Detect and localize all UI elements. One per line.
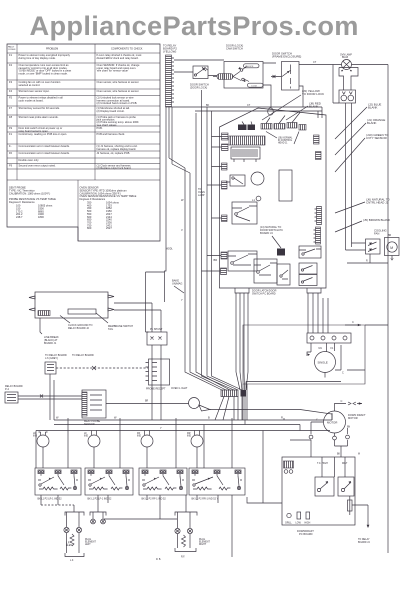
splice X on probe line <box>92 366 96 370</box>
dual element right plug <box>90 512 106 524</box>
svg-text:TO RELAY BOARD: TO RELAY BOARD <box>72 354 94 357</box>
indicator lamp RR <box>191 425 204 469</box>
svg-text:(2) Display board circuit.: (2) Display board circuit. <box>97 109 125 113</box>
wire frame switch to oven lamp <box>299 65 342 108</box>
downdraft pc board <box>282 457 355 525</box>
label: DOOR (LOCK) CAM SWITCH <box>226 44 243 51</box>
wire model jog <box>146 251 167 332</box>
svg-text:TO DOOR LOCK: TO DOOR LOCK <box>302 92 324 96</box>
svg-text:CT: CT <box>247 104 251 107</box>
svg-text:during time of day display mod: during time of day display mode. <box>19 56 57 60</box>
svg-text:UN/MAG: UN/MAG <box>172 282 182 286</box>
label MEMBRANE SWITCH TAIL <box>108 325 133 331</box>
leader: line break <box>40 318 42 334</box>
svg-text:FAN: FAN <box>374 232 379 236</box>
svg-text:CT: CT <box>313 61 317 64</box>
svg-text:F9: F9 <box>9 164 13 168</box>
cooling fan relay box <box>366 239 381 254</box>
svg-text:BK: BK <box>206 104 210 107</box>
svg-text:CNTRL HEAD J2: CNTRL HEAD J2 <box>366 201 389 205</box>
svg-text:BOARD J4: BOARD J4 <box>260 231 273 235</box>
connector J4 <box>277 249 285 256</box>
svg-text:F9: F9 <box>9 126 13 130</box>
grill element plug <box>175 512 197 552</box>
labels GRILL LOW HIGH <box>285 523 311 525</box>
downdraft motor M2 <box>324 399 363 433</box>
svg-text:Y: Y <box>181 298 183 302</box>
label (J10) GREEN TO CAVITY SENSOR with leader <box>366 133 389 140</box>
vacuum fluorescent display <box>231 147 260 162</box>
board feet <box>235 288 321 293</box>
svg-text:Shorted oven sensor input.: Shorted oven sensor input. <box>19 89 50 93</box>
svg-text:BK L1 P2 RF-1 IND 52: BK L1 P2 RF-1 IND 52 <box>142 498 167 501</box>
downdraft relay RLA <box>315 477 334 496</box>
indicator lamp RF <box>141 431 153 469</box>
wire stubs into board left connectors <box>202 137 222 272</box>
oven lamp sockets <box>339 90 356 103</box>
wire bus corners down <box>247 413 332 503</box>
arrow C to supply <box>345 324 388 326</box>
annotation (J9) NORMAL IN CONTROL HEAD J1 <box>278 137 293 145</box>
svg-text:BOARD J4: BOARD J4 <box>358 541 370 544</box>
label (J6) NATURAL TO CNTRL HEAD with leader <box>366 198 390 205</box>
wire lamp side drop <box>333 65 339 104</box>
svg-text:GRILL: GRILL <box>285 523 292 525</box>
svg-text:F5: F5 <box>9 96 13 100</box>
connector J1 board left <box>222 144 229 151</box>
wire oven light to bus <box>149 404 332 421</box>
label CLOCK GROUND TO RELAY BOARD J2 <box>68 324 93 330</box>
svg-text:Oven sensor, wire harness to s: Oven sensor, wire harness to sensor. <box>97 89 140 93</box>
label LINE BREAK (BLACK) AT BOARD J1 <box>44 336 59 345</box>
svg-text:Y: Y <box>160 426 162 430</box>
svg-text:PROBLEM: PROBLEM <box>46 48 58 51</box>
connector J5 board left <box>222 215 228 222</box>
meat probe sensor <box>82 390 106 418</box>
label (J1) ORANGE BLANK with leader <box>367 118 385 125</box>
label TO RELAY BOARD J-6 (GREY) <box>45 354 67 360</box>
connector J9 <box>287 123 297 129</box>
label COOLING FAN <box>374 229 387 236</box>
caption TO RELAY BOARD J4 <box>358 538 370 544</box>
svg-text:R.F.: R.F. <box>181 557 185 559</box>
svg-text:IND: IND <box>137 435 141 438</box>
svg-text:(2) Unlocked hand contact on P: (2) Unlocked hand contact on PCB. <box>97 101 138 105</box>
cam block <box>217 74 233 80</box>
wires board bottom to terminal block <box>308 293 328 333</box>
svg-text:Shorted key sensed for 32 seco: Shorted key sensed for 32 seconds. <box>19 106 61 110</box>
label: DOOR SWITCH (FRAME ENCLOSURE) <box>272 52 301 59</box>
connector P3 dark blocks <box>238 125 247 131</box>
label BAKE UN/MA with leader <box>172 279 182 286</box>
svg-text:ELEM: ELEM <box>66 545 72 547</box>
svg-text:selected at control.: selected at control. <box>19 83 41 87</box>
svg-text:W: W <box>56 416 59 420</box>
label: TO RELAY BOARD (YELLOW) <box>163 44 177 54</box>
wire B1 bottom drop <box>41 495 58 505</box>
door switch (frame enclosure) <box>271 62 299 91</box>
node junction dots <box>206 104 251 107</box>
label (J2) BLUE BLANK with leader <box>368 103 381 110</box>
svg-text:IND: IND <box>187 435 191 438</box>
label (J3) YELLOW TO DOOR LOCK with leader <box>302 89 324 96</box>
svg-text:Degrees F Resistance: Degrees F Resistance <box>80 197 106 201</box>
wires below connector bar <box>215 397 245 425</box>
door switch (door lock) <box>193 66 217 79</box>
svg-text:F4: F4 <box>9 89 13 93</box>
label TO OVEN LAMP <box>198 188 205 197</box>
connector J3 <box>261 124 272 130</box>
element labels <box>66 538 210 562</box>
connector J5R vertical bar <box>314 227 321 244</box>
svg-text:MOTOR: MOTOR <box>348 416 358 420</box>
svg-text:AppliancePartsPros.com: AppliancePartsPros.com <box>30 10 359 41</box>
wire fan to right rail <box>347 254 388 263</box>
svg-text:BLANK: BLANK <box>309 105 319 109</box>
svg-text:C: C <box>341 399 343 403</box>
svg-text:F1: F1 <box>9 132 13 136</box>
svg-text:Communication error noted betw: Communication error noted between boards… <box>19 144 71 148</box>
connector J-6 <box>45 362 56 374</box>
relay K1 <box>226 175 245 186</box>
svg-text:F7: F7 <box>9 106 13 110</box>
svg-text:V: V <box>181 228 183 232</box>
pin leader marks above connectors <box>242 113 300 125</box>
svg-text:R: R <box>366 261 368 263</box>
svg-text:B: B <box>208 416 210 420</box>
svg-text:BR: BR <box>145 401 149 403</box>
labels T.C. HIGH / MGT <box>317 462 348 465</box>
svg-text:M1: M1 <box>319 347 323 350</box>
label: OVEN LAMP <box>340 54 352 60</box>
wire J-6 drop to bus <box>50 374 54 420</box>
wire cam switch to frame switch <box>263 63 276 107</box>
svg-text:Control loop, reading on PCB l: Control loop, reading on PCB low or open… <box>19 132 68 136</box>
wires into shunt <box>114 303 161 332</box>
right supply rail <box>387 65 389 554</box>
relay K7 <box>299 263 317 274</box>
wire P2 to door lock switch <box>174 60 224 72</box>
svg-text:Second oven error output noted: Second oven error output noted. <box>19 164 56 168</box>
label RELAY BOARD P-4 <box>5 385 23 391</box>
connector J6R vertical bar <box>315 207 322 225</box>
downdraft board output pins <box>287 512 310 519</box>
wire meat probe right <box>106 403 149 405</box>
oven lamp bulb assembly <box>339 60 358 91</box>
capacitor C2 <box>348 496 353 515</box>
svg-text:'see chart' for 'sensor value': 'see chart' for 'sensor value' <box>97 69 129 73</box>
svg-text:M: M <box>358 454 360 456</box>
wire bundle from relay connector down <box>166 107 172 251</box>
wire bus into downdraft area <box>290 439 311 441</box>
P1 shunt plug <box>147 332 167 345</box>
convection fan motor M1 <box>307 343 365 378</box>
svg-text:mode, or over 'BMP' locked in: mode, or over 'BMP' locked in clean mode… <box>19 71 68 75</box>
svg-text:2527: 2527 <box>106 226 112 230</box>
wire cap to relay board <box>352 505 368 526</box>
svg-text:BULB: BULB <box>342 57 348 59</box>
infinite switch RR-1 <box>189 468 245 495</box>
svg-text:F1: F1 <box>9 53 13 57</box>
svg-text:R. B.: R. B. <box>156 559 161 561</box>
svg-text:800: 800 <box>87 226 92 230</box>
wire lamp neutral pair down <box>346 103 352 250</box>
svg-text:UNLOCK: UNLOCK <box>245 66 254 68</box>
svg-text:BLANK: BLANK <box>368 106 378 110</box>
svg-text:Double oven only: Double oven only <box>19 158 40 162</box>
svg-text:discard ERC2 clock and relay b: discard ERC2 clock and relay board. <box>97 56 139 60</box>
svg-text:CVTY SENSOR: CVTY SENSOR <box>366 136 387 140</box>
wire drops bus to switch boxes <box>68 420 232 468</box>
svg-text:SWITCH PC BOARD: SWITCH PC BOARD <box>252 293 276 296</box>
svg-text:BR: BR <box>388 235 392 237</box>
wires into downdraft relays <box>322 457 345 477</box>
downdraft relay RLB <box>338 477 354 496</box>
wire B2 drop to element <box>98 495 108 512</box>
svg-text:(DOOR LOCK): (DOOR LOCK) <box>190 86 207 90</box>
connector P-4 <box>5 392 24 403</box>
display header pins <box>229 136 265 145</box>
svg-text:PCB.: PCB. <box>97 126 103 130</box>
wire lamp pair to fan <box>346 243 366 250</box>
svg-text:(2) Replace output lock board.: (2) Replace output lock board. <box>97 166 132 170</box>
connector P2 ribbon to relay board <box>166 55 175 107</box>
board bottom caption <box>252 290 277 296</box>
svg-text:F1: F1 <box>331 347 334 350</box>
bus junction ticks <box>68 418 284 420</box>
board mounting hole <box>268 108 274 115</box>
oven probe receptacle <box>146 359 170 385</box>
main vertical harness <box>185 113 230 390</box>
relay K6 <box>299 246 321 258</box>
svg-text:CAM SWITCH: CAM SWITCH <box>226 47 243 51</box>
svg-text:248.7: 248.7 <box>16 215 23 219</box>
svg-text:DUAL: DUAL <box>199 538 206 541</box>
wire fan-out to main harness <box>169 158 190 173</box>
svg-text:BOARD J1: BOARD J1 <box>44 342 57 345</box>
svg-text:BLANK: BLANK <box>367 121 377 125</box>
wire bar to cavity <box>246 382 341 391</box>
svg-text:F-: F- <box>9 144 12 148</box>
connector J1R right side <box>316 152 322 160</box>
svg-text:C: C <box>342 372 344 375</box>
membrane clock board P5 <box>29 292 114 318</box>
harness wire labels <box>181 198 217 302</box>
svg-text:(YELLOW): (YELLOW) <box>163 50 176 54</box>
svg-text:MOTOR: MOTOR <box>327 421 337 425</box>
small pad circle <box>256 196 261 201</box>
svg-text:PROBE RECEPT: PROBE RECEPT <box>146 388 166 391</box>
connector P9 <box>299 125 306 131</box>
label (J8) RED BLANK with leader <box>309 102 321 109</box>
svg-text:J2 harness, ok, replace PCB.: J2 harness, ok, replace PCB. <box>97 151 131 155</box>
indicator lamp LF <box>88 431 100 469</box>
svg-text:IND: IND <box>84 435 88 438</box>
label MEAT PROBE SENSOR <box>84 420 100 426</box>
dual element left plug <box>64 512 84 557</box>
svg-text:LEFT: LEFT <box>85 544 91 546</box>
svg-text:BR: BR <box>214 258 218 262</box>
label DOWN DRAFT MOTOR <box>316 413 366 456</box>
buzzer circle <box>251 172 264 185</box>
connector J7 board left <box>221 252 227 259</box>
svg-text:Shorted meat probe alarm sound: Shorted meat probe alarm sounds. <box>19 115 59 119</box>
svg-text:1800: 1800 <box>38 215 44 219</box>
svg-text:LOCK: LOCK <box>252 85 258 87</box>
svg-text:COMPONENTS TO CHECK: COMPONENTS TO CHECK <box>111 48 143 51</box>
svg-text:W: W <box>181 198 184 202</box>
svg-text:cook modes at board.: cook modes at board. <box>19 98 44 102</box>
svg-text:F2: F2 <box>9 63 13 67</box>
relay K3 <box>228 251 257 271</box>
wire long lower run <box>172 107 323 118</box>
door lock cam switch <box>224 62 263 89</box>
svg-text:F3: F3 <box>9 80 13 84</box>
connector J8 <box>274 124 285 130</box>
svg-text:MODL: MODL <box>166 249 173 251</box>
label: DOOR SWITCH (DOOR LOCK) <box>190 83 209 90</box>
svg-text:F8: F8 <box>9 115 13 119</box>
wire element bus <box>104 518 177 520</box>
svg-text:M: M <box>390 246 393 250</box>
svg-text:OVEN L IGHT: OVEN L IGHT <box>171 386 188 390</box>
wire B4 drops <box>186 495 232 557</box>
svg-text:LOW: LOW <box>296 523 302 525</box>
svg-text:TAIL: TAIL <box>108 328 114 331</box>
svg-text:OVN LAMP: OVN LAMP <box>340 54 352 57</box>
svg-text:T.C. HIGH: T.C. HIGH <box>317 462 328 465</box>
wires below shunt to bus <box>152 345 161 420</box>
label (J5) BROWN BLANK with leader <box>363 218 390 222</box>
wire cam to cam switch <box>213 76 217 78</box>
label P1 SHUNT <box>150 328 163 331</box>
connector J2 board left <box>222 133 229 140</box>
svg-text:DUAL: DUAL <box>85 538 92 541</box>
svg-text:R: R <box>281 416 283 420</box>
relay K8 <box>299 275 317 286</box>
fault code table <box>7 44 160 241</box>
wire P-4 to meat probe <box>24 395 82 400</box>
connector J7 downdraft <box>284 461 294 473</box>
dashed wire to probe receptacle <box>56 367 148 369</box>
relay K2 <box>232 198 257 224</box>
svg-text:CODES: CODES <box>8 49 16 51</box>
wire diagonals to bus <box>236 372 248 420</box>
wires board bottom left drop <box>236 293 248 372</box>
svg-text:L1: L1 <box>252 198 255 202</box>
svg-text:SINGLE: SINGLE <box>318 361 328 365</box>
svg-text:(J5) BROWN BLANK: (J5) BROWN BLANK <box>363 218 390 222</box>
svg-text:BK L1 P2 RR-1 IND 52 Y: BK L1 P2 RR-1 IND 52 Y <box>192 498 219 501</box>
relay K4 <box>254 259 277 283</box>
connector J10 board left <box>222 163 228 170</box>
cooling fan motor <box>385 235 400 260</box>
svg-text:W: W <box>114 416 117 420</box>
svg-text:J-6 (GREY): J-6 (GREY) <box>45 357 58 360</box>
svg-text:HIGH: HIGH <box>305 523 311 525</box>
terminal block TB1 <box>307 333 351 343</box>
harness connector bar P1 <box>221 390 238 397</box>
indicator lamp LR <box>36 431 49 469</box>
IC chip U2 <box>279 170 292 201</box>
svg-text:IND: IND <box>33 435 37 438</box>
wire bundle left of board <box>202 90 243 390</box>
motor plug connectors <box>309 422 349 457</box>
svg-text:L.F.: L.F. <box>70 560 74 562</box>
infinite switch LF-1 <box>85 468 133 495</box>
connector J6 board left <box>222 181 228 189</box>
svg-text:RIGHT: RIGHT <box>199 544 207 546</box>
svg-text:RELAY BOARD J2: RELAY BOARD J2 <box>68 327 89 330</box>
svg-text:BK: BK <box>337 454 341 456</box>
infinite switch LR-1 <box>35 468 81 495</box>
svg-text:P-4: P-4 <box>5 388 10 391</box>
infinite switch RF-1 <box>139 468 187 495</box>
svg-text:Oven sensor, wire harness to s: Oven sensor, wire harness to sensor. <box>97 80 140 84</box>
svg-text:C: C <box>352 320 354 324</box>
svg-text:Degrees F Resistance: Degrees F Resistance <box>9 200 35 204</box>
connector J11 board left <box>221 268 227 275</box>
oven cavity enclosure <box>243 325 365 384</box>
svg-text:F0: F0 <box>9 151 13 155</box>
main bus wires <box>36 420 332 431</box>
svg-text:HEAD J1: HEAD J1 <box>278 142 288 145</box>
wire B3 drop <box>147 495 160 519</box>
relay K5 <box>277 264 290 285</box>
svg-text:(FRAME ENCLOSURE): (FRAME ENCLOSURE) <box>272 55 301 59</box>
svg-text:Communication error noted betw: Communication error noted between boards… <box>19 151 71 155</box>
svg-text:(J9) NORMAL: (J9) NORMAL <box>278 137 293 140</box>
caption DOWNDRAFT PC BOARD <box>297 529 314 536</box>
oven light lamp <box>189 398 211 412</box>
dashed wire to dual element <box>41 504 74 506</box>
svg-text:L.F.: L.F. <box>66 543 70 545</box>
svg-text:PC BOARD: PC BOARD <box>299 532 313 536</box>
connector J2R right side <box>314 135 320 144</box>
svg-text:PCB and harness check.: PCB and harness check. <box>97 132 126 136</box>
svg-text:CALIBRATION: 1080 ohms (10: CALIBRATION: 1080 ohms (100°F.) <box>9 191 50 195</box>
annotation (J4) NATURAL TO DOOR SWITCH PC BOARD J4 <box>260 225 283 235</box>
svg-text:harness ok, replace display bo: harness ok, replace display board. <box>97 147 137 151</box>
leader: clock ground <box>60 313 108 323</box>
electronic range control board U1 outline <box>220 108 327 288</box>
